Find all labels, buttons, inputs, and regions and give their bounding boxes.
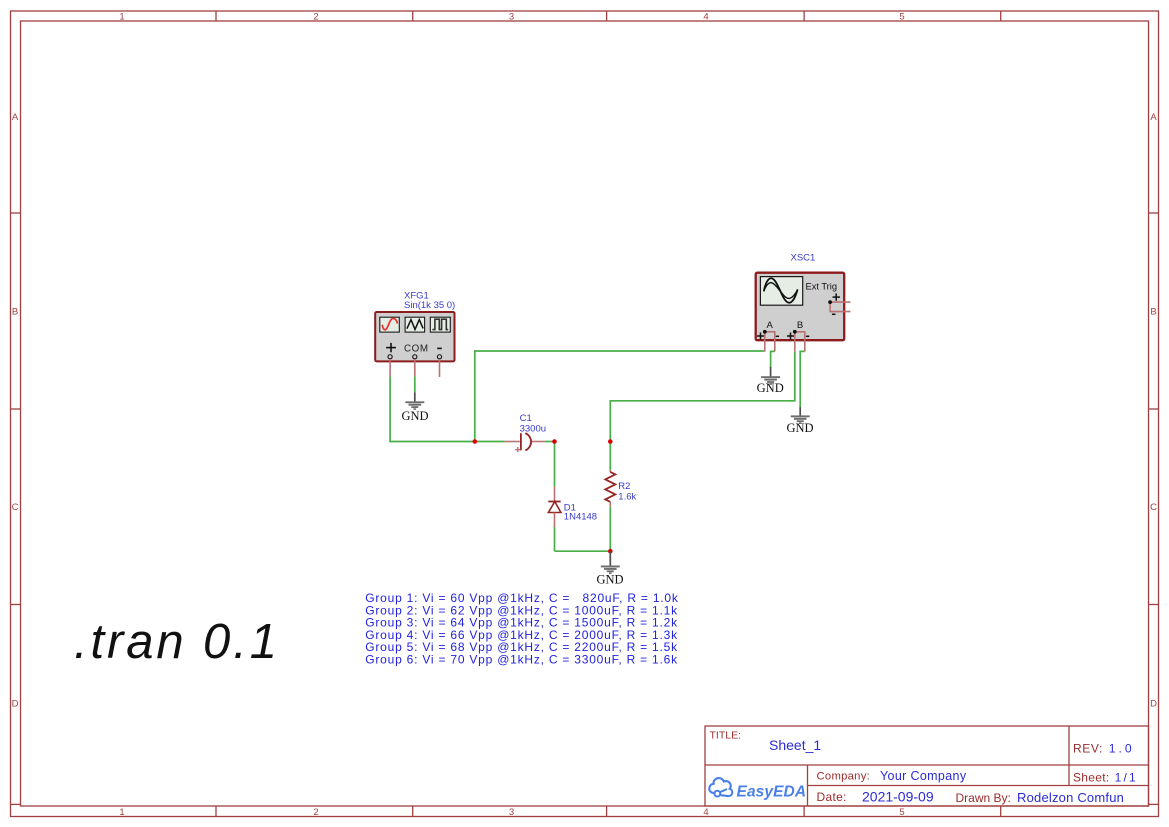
diode D1 (548, 486, 561, 527)
function generator XFG1 (375, 312, 454, 361)
wire: R2 bottom to junction D (609, 507, 611, 552)
XFG1 labels (404, 290, 455, 311)
wire: junction A up and right to scope A+ (475, 351, 765, 442)
svg-text:GND: GND (596, 572, 623, 586)
svg-text:XSC1: XSC1 (791, 253, 816, 264)
svg-text:1: 1 (119, 807, 124, 818)
svg-text:GND: GND (786, 421, 813, 435)
junction node B (552, 439, 557, 444)
svg-text:Sheet_1: Sheet_1 (769, 737, 821, 753)
wire: C1 right to junction B (545, 441, 555, 443)
svg-text:1/1: 1/1 (1115, 771, 1138, 785)
oscilloscope XSC1 (756, 273, 845, 341)
svg-text:Your Company: Your Company (880, 769, 967, 783)
svg-text:GND: GND (401, 409, 428, 423)
ground under XFG1 COM (401, 392, 428, 423)
svg-text:3300u: 3300u (520, 424, 546, 435)
wire: junction C to R2 top (609, 442, 611, 471)
wire: scope A- to ground (771, 351, 775, 366)
wire: scope B- to ground (800, 351, 805, 407)
svg-text:1N4148: 1N4148 (564, 512, 597, 523)
wire: bottom horizontal to junction D (555, 550, 611, 552)
svg-text:EasyEDA: EasyEDA (737, 783, 807, 800)
wire: XFG1 COM down to ground (414, 376, 416, 392)
R2 labels (618, 481, 636, 503)
XFG1 pin stub minus (439, 359, 441, 377)
junction node D (608, 549, 613, 554)
XSC1 pin A hooks (765, 332, 775, 352)
svg-text:5: 5 (899, 12, 904, 23)
svg-text:3: 3 (509, 12, 514, 23)
ground under bottom node (596, 551, 623, 586)
svg-text:1: 1 (119, 12, 124, 23)
svg-text:C1: C1 (520, 413, 532, 424)
svg-text:2: 2 (313, 807, 318, 818)
D1 labels (564, 503, 597, 523)
svg-text:3: 3 (509, 807, 514, 818)
wire: junction C up and right to scope B+ (610, 351, 795, 441)
svg-text:Company:: Company: (817, 771, 871, 783)
svg-text:GND: GND (757, 381, 784, 395)
svg-text:Date:: Date: (817, 790, 847, 804)
XSC1 pin B hooks (795, 332, 805, 352)
svg-text:2021-09-09: 2021-09-09 (862, 789, 934, 805)
svg-text:B: B (1150, 307, 1156, 318)
svg-text:4: 4 (703, 12, 708, 23)
svg-text:1.0: 1.0 (1109, 742, 1135, 756)
junction node A (473, 439, 478, 444)
ground under scope A (757, 367, 784, 395)
svg-text:A: A (767, 320, 774, 331)
ground under scope B (786, 407, 813, 435)
C1 labels (520, 413, 546, 435)
group annotation text (365, 591, 679, 667)
svg-text:R2: R2 (618, 481, 630, 492)
wire: junction A to C1 left (475, 441, 505, 443)
svg-text:B: B (797, 320, 803, 331)
XFG1 pin stub plus (389, 359, 391, 376)
svg-text:C: C (12, 502, 19, 513)
svg-text:5: 5 (899, 807, 904, 818)
svg-text:C: C (1150, 502, 1157, 513)
svg-text:4: 4 (703, 807, 708, 818)
svg-text:D: D (1150, 699, 1157, 710)
junction node C (608, 439, 613, 444)
svg-text:A: A (1150, 112, 1157, 123)
wire: diode D1 bottom to bottom node (554, 527, 556, 551)
svg-text:Ext Trig: Ext Trig (806, 281, 838, 291)
svg-text:D: D (12, 699, 19, 710)
svg-text:COM: COM (404, 344, 429, 355)
capacitor C1 (504, 433, 544, 452)
svg-text:A: A (12, 112, 19, 123)
svg-text:Sin(1k 35 0): Sin(1k 35 0) (404, 300, 455, 311)
XFG1 pin stub COM (414, 359, 416, 376)
svg-text:Sheet:: Sheet: (1073, 771, 1110, 785)
svg-text:REV:: REV: (1073, 742, 1103, 756)
wire: junction B down to diode D1 (554, 442, 556, 487)
svg-text:Group 6: Vi = 70 Vpp @1kHz, C: Group 6: Vi = 70 Vpp @1kHz, C = 3300uF, … (365, 653, 678, 667)
svg-text:B: B (12, 307, 18, 318)
XSC1 ext trig pin (830, 302, 850, 312)
svg-text:Rodelzon Comfun: Rodelzon Comfun (1017, 790, 1124, 805)
title block texts (710, 730, 1138, 806)
svg-text:1.6k: 1.6k (618, 492, 636, 503)
title block (705, 726, 1149, 806)
svg-text:TITLE:: TITLE: (710, 730, 742, 742)
wire: XFG1 plus to junction A (390, 376, 475, 441)
svg-text:.tran 0.1: .tran 0.1 (74, 615, 280, 669)
resistor R2 (605, 470, 615, 507)
svg-text:Drawn By:: Drawn By: (956, 791, 1011, 805)
EasyEDA logo (709, 778, 806, 800)
svg-text:2: 2 (313, 12, 318, 23)
